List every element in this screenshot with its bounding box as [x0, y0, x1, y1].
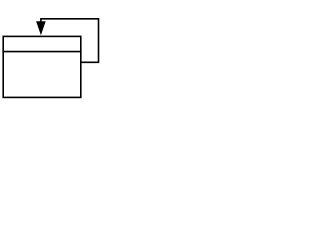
self-loop wire — [41, 19, 99, 63]
header separator line — [2, 51, 81, 53]
arrowhead — [36, 21, 46, 35]
class box — [3, 36, 81, 97]
